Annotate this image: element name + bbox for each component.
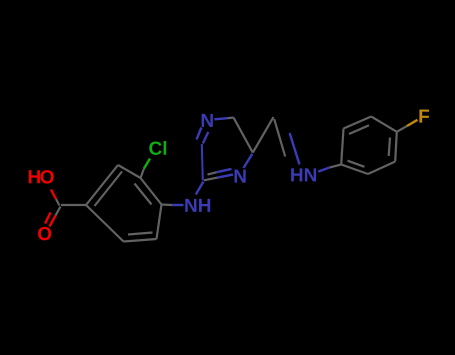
bond O-C* gray half xyxy=(56,199,60,206)
benzene ring edge L6-L1 xyxy=(86,205,124,242)
fluorophenyl ring edge V5-V1 inner double xyxy=(348,161,365,167)
svg-text:HO: HO xyxy=(27,167,54,188)
double bond C*=O main gray half xyxy=(56,207,61,216)
svg-text:NH: NH xyxy=(184,196,211,217)
anilino bond L4-N blue half xyxy=(172,204,184,206)
bond HN to ring V1 gray half xyxy=(330,165,341,168)
benzene ring edge L2-L3 xyxy=(118,165,141,178)
anilino bond L4-N gray half xyxy=(162,203,173,206)
anilino N to pyrazine C3 stub xyxy=(196,182,204,195)
double bond C*=O offset line red xyxy=(45,213,50,224)
svg-text:O: O xyxy=(37,224,52,245)
pyrazine edge C6-C5 xyxy=(234,118,253,153)
benzene ring edge L4-L5 xyxy=(157,205,162,240)
svg-text:N: N xyxy=(233,167,247,188)
pyrazine double bond C3=N4 inner blue half xyxy=(217,169,232,172)
fluorophenyl ring edge V4-V5 xyxy=(368,162,395,175)
fluorine bond orange half xyxy=(407,120,418,126)
pyrazine double bond C3=N4 main blue half xyxy=(218,175,234,178)
benzene ring edge L3-L4 xyxy=(141,178,162,205)
pyrazine double bond N1=C2 line1 xyxy=(197,128,202,140)
svg-text:N: N xyxy=(200,111,214,132)
pyrazine double bond N1=C2 line2 xyxy=(203,132,209,144)
svg-text:Cl: Cl xyxy=(148,139,167,160)
pyrazine bond N1-C6 gray half xyxy=(228,116,234,119)
apex double bond inner line blue xyxy=(290,133,300,165)
benzene ring edge L5-L6 inner double xyxy=(128,233,153,235)
fluorophenyl ring edge V2-V3 inner double xyxy=(349,125,369,134)
fluorophenyl ring edge CF-V4 xyxy=(395,132,397,162)
chlorine bond green half xyxy=(144,159,150,169)
wire C5 to apex xyxy=(253,117,274,153)
pyrazine double bond C3=N4 main gray half xyxy=(204,178,218,181)
svg-text:HN: HN xyxy=(290,165,317,186)
double bond C*=O main red half xyxy=(50,216,56,227)
fluorophenyl ring edge V1-V2 xyxy=(341,129,343,165)
wire C* to ring L1 xyxy=(61,204,86,206)
fluorophenyl ring edge V2-V3 xyxy=(344,117,372,129)
pyrazine edge C2-C3 xyxy=(202,144,203,181)
benzene ring edge L3-L4 inner double xyxy=(135,184,152,205)
apex double bond main line gray xyxy=(274,119,285,157)
fluorine bond gray half xyxy=(397,126,407,132)
pyrazine bond N4-C5 blue xyxy=(244,154,253,168)
chlorine bond gray half xyxy=(141,169,145,179)
fluorophenyl ring edge V3-CF xyxy=(371,117,397,132)
fluorophenyl ring edge V5-V1 xyxy=(341,165,368,175)
pyrazine double bond C3=N4 inner gray half xyxy=(208,172,217,174)
benzene ring edge L5-L6 xyxy=(124,239,157,242)
fluorophenyl ring edge CF-V4 inner double xyxy=(389,138,390,157)
bond HN to ring V1 blue xyxy=(318,167,330,171)
benzene ring edge L1-L2 inner double xyxy=(95,172,123,207)
pyrazine bond N1-C6 blue half xyxy=(214,118,227,119)
bond O-C* red half xyxy=(51,190,56,200)
svg-text:F: F xyxy=(418,107,430,128)
benzene ring edge L1-L2 xyxy=(86,165,118,205)
